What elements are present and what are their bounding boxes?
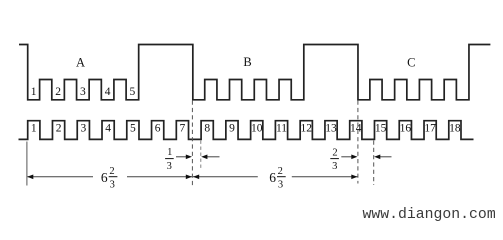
svg-text:3: 3 [110,180,115,191]
svg-text:2: 2 [278,166,283,177]
svg-text:2: 2 [55,86,61,98]
bottom waveform (pulse train 1-18) [19,121,474,140]
2/3 arrowhead pointing left at x=374 [374,155,380,160]
svg-text:13: 13 [325,122,337,134]
svg-text:1: 1 [31,122,37,134]
dashed extension line at x=358 (end of second 6-2/3 span) [357,101,359,184]
2/3 arrowhead pointing right at x=358 [351,155,357,160]
dashed extension line at x=201 (1/3 right boundary) [200,141,202,170]
top waveform (signal with sections A,B,C) [19,45,490,100]
svg-text:2: 2 [332,147,337,158]
dimension label 6 2/3 (second) [269,166,285,191]
svg-text:6: 6 [155,122,161,134]
1/3 dimension: right arrow tail [207,156,220,158]
second 6-2/3 dimension line left part [193,176,258,178]
second 6-2/3 dimension line right part [292,176,358,178]
svg-text:5: 5 [130,122,136,134]
left extension line at x=27 [26,142,28,186]
svg-text:6: 6 [101,170,108,185]
1/3 dimension: left arrow tail [176,156,187,158]
6-2/3 arrowhead pointing right at x=192 [186,175,192,180]
svg-text:7: 7 [180,122,186,134]
first 6-2/3 dimension line left part [28,176,93,178]
svg-text:12: 12 [301,122,313,134]
6-2/3 arrowhead pointing left at x=193 [193,175,199,180]
svg-text:2: 2 [109,166,114,177]
svg-text:A: A [76,56,85,70]
svg-text:1: 1 [31,86,37,98]
svg-text:17: 17 [424,122,436,134]
svg-text:www.diangon.com: www.diangon.com [363,207,496,223]
1/3 arrowhead pointing left at x=201 [201,155,207,160]
svg-text:1: 1 [167,147,172,158]
1/3 arrowhead pointing right at x=192 [186,155,192,160]
svg-text:3: 3 [332,161,337,172]
svg-text:5: 5 [130,86,136,98]
svg-text:14: 14 [350,122,362,134]
svg-text:9: 9 [229,122,235,134]
2/3 dimension: left arrow tail [341,156,352,158]
svg-text:3: 3 [80,86,86,98]
first 6-2/3 dimension line right part [127,176,192,178]
6-2/3 arrowhead pointing left at x=27 [27,175,33,180]
svg-text:C: C [407,56,415,70]
svg-text:11: 11 [276,122,287,134]
fraction label 1/3 [165,147,174,172]
svg-text:3: 3 [167,161,172,172]
fraction label 2/3 [330,147,339,172]
svg-text:3: 3 [278,180,283,191]
svg-text:2: 2 [56,122,62,134]
svg-text:3: 3 [80,122,86,134]
svg-text:8: 8 [204,122,210,134]
svg-text:4: 4 [105,86,111,98]
svg-text:10: 10 [251,122,263,134]
svg-text:15: 15 [375,122,387,134]
2/3 dimension: right arrow tail [380,156,392,158]
dimension label 6 2/3 (first) [101,166,117,191]
svg-text:16: 16 [400,122,412,134]
svg-text:B: B [243,55,251,69]
svg-text:18: 18 [449,122,461,134]
dashed extension line at x=374 (2/3 right boundary) [373,141,375,186]
svg-text:6: 6 [269,170,276,185]
dashed extension line at x=192 (end of first 6-2/3 span) [191,101,193,186]
6-2/3 arrowhead pointing right at x=357 [351,175,357,180]
svg-text:4: 4 [105,122,111,134]
